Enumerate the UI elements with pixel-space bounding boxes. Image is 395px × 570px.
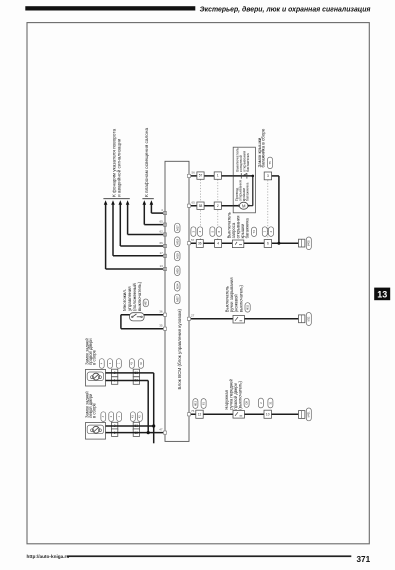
svg-text:выключатель): выключатель) <box>137 281 142 311</box>
svg-text:багажника в сборе: багажника в сборе <box>261 128 266 167</box>
svg-text:13: 13 <box>377 290 387 300</box>
svg-text:М57: М57 <box>144 300 148 306</box>
svg-text:в сборе: в сборе <box>92 402 97 418</box>
svg-text:выключатель): выключатель) <box>238 284 243 312</box>
svg-text:35: 35 <box>159 324 163 328</box>
svg-text:Экстерьер, двери, люк и охранн: Экстерьер, двери, люк и охранная сигнали… <box>200 5 371 13</box>
svg-text:371: 371 <box>357 555 371 564</box>
svg-text:56: 56 <box>192 171 196 175</box>
svg-text:66: 66 <box>159 241 163 245</box>
svg-text:10: 10 <box>266 412 270 416</box>
svg-text:(выключатель): (выключатель) <box>238 380 243 409</box>
svg-text:К плафонам освещения салона: К плафонам освещения салона <box>144 128 149 197</box>
svg-text:57: 57 <box>191 238 195 242</box>
svg-text:М32: М32 <box>308 316 311 321</box>
svg-text:62: 62 <box>159 230 163 234</box>
svg-text:36: 36 <box>198 242 202 246</box>
svg-text:М20: М20 <box>175 268 179 274</box>
svg-text:в сборе: в сборе <box>92 349 97 365</box>
svg-text:багажника: багажника <box>245 152 250 172</box>
svg-text:65: 65 <box>192 201 196 205</box>
svg-text:27: 27 <box>191 313 195 317</box>
svg-text:47: 47 <box>159 428 163 432</box>
svg-text:и аварийной сигнализации: и аварийной сигнализации <box>115 138 121 197</box>
svg-text:36: 36 <box>159 310 163 314</box>
svg-text:М15: М15 <box>246 304 250 310</box>
svg-text:6: 6 <box>267 242 269 246</box>
svg-text:1: 1 <box>217 174 219 178</box>
svg-text:3: 3 <box>267 174 269 178</box>
svg-text:М13: М13 <box>193 400 197 406</box>
svg-text:М34: М34 <box>175 283 179 289</box>
svg-text:М17: М17 <box>175 225 179 231</box>
svg-text:13: 13 <box>159 264 163 268</box>
svg-text:М401: М401 <box>308 411 311 418</box>
svg-text:17: 17 <box>159 251 163 255</box>
svg-text:4: 4 <box>217 242 219 246</box>
svg-text:75: 75 <box>191 409 195 413</box>
svg-text:М19: М19 <box>175 253 179 259</box>
svg-text:12: 12 <box>198 412 202 416</box>
svg-text:2: 2 <box>217 204 219 208</box>
svg-text:М57: М57 <box>175 296 179 302</box>
svg-text:http://auto-kniga.ru: http://auto-kniga.ru <box>27 554 70 559</box>
svg-text:багажника: багажника <box>245 182 250 202</box>
svg-text:57: 57 <box>199 174 203 178</box>
svg-text:D8: D8 <box>245 401 249 405</box>
svg-text:багажника: багажника <box>244 218 249 239</box>
svg-text:65: 65 <box>159 220 163 224</box>
svg-text:М18: М18 <box>175 239 179 245</box>
svg-text:M: M <box>242 203 246 208</box>
svg-text:М402: М402 <box>308 240 311 247</box>
svg-text:Блок BCM (блок управления кузо: Блок BCM (блок управления кузовом) <box>177 309 182 390</box>
svg-text:58: 58 <box>199 204 203 208</box>
